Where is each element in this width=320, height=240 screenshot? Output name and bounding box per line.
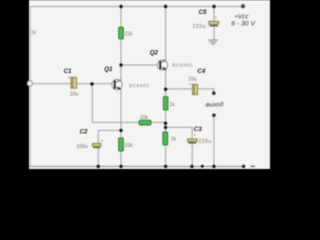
capacitor C5 220u	[193, 9, 219, 30]
junction bottom rail / C3	[190, 165, 193, 168]
svg-text:1k: 1k	[171, 136, 177, 142]
svg-text:BC549C: BC549C	[172, 63, 193, 68]
transistor Q2 BC549C	[150, 49, 194, 70]
junction bottom rail end	[242, 165, 245, 168]
capacitor C4 10u	[188, 68, 206, 94]
junction bottom rail / 1k	[164, 165, 167, 168]
svg-text:+: +	[214, 15, 217, 20]
svg-text:1k: 1k	[31, 30, 37, 36]
junction top rail / Q2 collector	[164, 5, 167, 8]
junction top rail / C5	[212, 5, 215, 8]
svg-text:6 - 30 V: 6 - 30 V	[231, 21, 256, 28]
svg-text:+Vcc: +Vcc	[234, 13, 249, 20]
resistor 1k upper (Q2 emitter)	[163, 97, 175, 110]
junction Q1 base / feedback	[90, 82, 93, 85]
junction Q2 emitter / output	[164, 88, 167, 91]
wire C2 branch	[98, 130, 121, 166]
svg-text:C1: C1	[64, 68, 72, 75]
svg-text:BC549C: BC549C	[129, 83, 150, 88]
wire Q2 collector to rail	[165, 7, 167, 62]
wire Q1 collector from rail through R 22k	[120, 7, 122, 82]
junction C3 branch / 1k divider	[164, 126, 167, 129]
wire Q1 base feedback vertical	[91, 84, 93, 122]
svg-text:C2: C2	[80, 129, 88, 136]
svg-text:+: +	[101, 138, 104, 143]
paper background	[29, 0, 270, 169]
resistor 10k vertical (Q1 emitter)	[119, 138, 133, 151]
wire C3 branch	[166, 127, 193, 166]
node output terminal bottom	[212, 113, 216, 117]
junction top rail / R22k	[119, 5, 122, 8]
svg-text:C4: C4	[197, 68, 205, 75]
wire input to Q1 base	[33, 83, 112, 85]
resistor 22k	[119, 27, 133, 39]
junction bottom rail stray	[201, 165, 204, 168]
svg-text:1k: 1k	[170, 102, 176, 108]
input terminal	[27, 81, 32, 86]
transistor Q1 BC549C	[104, 66, 150, 90]
svg-text:10k: 10k	[140, 115, 149, 121]
svg-text:Q1: Q1	[104, 66, 113, 73]
wire Q1 emitter down to rail	[120, 88, 122, 166]
wire bottom rail stub	[251, 165, 255, 167]
wire output via C4	[166, 89, 214, 92]
ground symbol (C5)	[208, 40, 218, 45]
capacitor C1 10u	[64, 68, 79, 98]
svg-text:10k: 10k	[124, 143, 133, 149]
junction Q2 base / Q1 collector	[119, 63, 122, 66]
node output terminal top	[212, 91, 216, 95]
junction bottom rail / R10k	[119, 165, 122, 168]
svg-text:+: +	[189, 82, 192, 87]
capacitor C2 100u	[76, 129, 103, 151]
svg-text:220u: 220u	[193, 24, 206, 30]
node +Vcc terminal	[241, 4, 245, 8]
svg-text:выход: выход	[206, 101, 224, 108]
wire feedback horizontal to R 10k	[92, 121, 165, 123]
wire output return to rail	[213, 116, 215, 166]
junction bottom rail / output return	[212, 165, 215, 168]
resistor 1k lower	[163, 132, 177, 145]
junction Q1 emitter / C2 branch	[119, 129, 122, 132]
svg-text:22k: 22k	[125, 32, 134, 38]
wire Q2 emitter down to rail	[165, 69, 167, 166]
svg-text:Q2: Q2	[150, 49, 159, 56]
svg-text:C5: C5	[199, 9, 207, 16]
wire C5 branch to ground	[213, 7, 215, 40]
svg-text:220u: 220u	[198, 139, 211, 145]
resistor 10k horizontal (feedback)	[139, 115, 151, 125]
junction bottom rail / C2	[97, 165, 100, 168]
svg-text:+: +	[193, 133, 196, 138]
capacitor C3 220u	[188, 126, 212, 145]
wire top +V rail	[30, 6, 244, 8]
wire Q2 base from Q1 collector	[121, 64, 158, 66]
wire left vertical (clipped by frame edge)	[29, 7, 31, 167]
svg-text:10u: 10u	[188, 76, 197, 82]
svg-text:100u: 100u	[76, 144, 87, 150]
svg-text:10u: 10u	[70, 92, 79, 98]
wire bottom ground rail	[30, 165, 244, 167]
junction feedback / 1k divider	[164, 122, 167, 125]
svg-text:+: +	[68, 75, 71, 80]
